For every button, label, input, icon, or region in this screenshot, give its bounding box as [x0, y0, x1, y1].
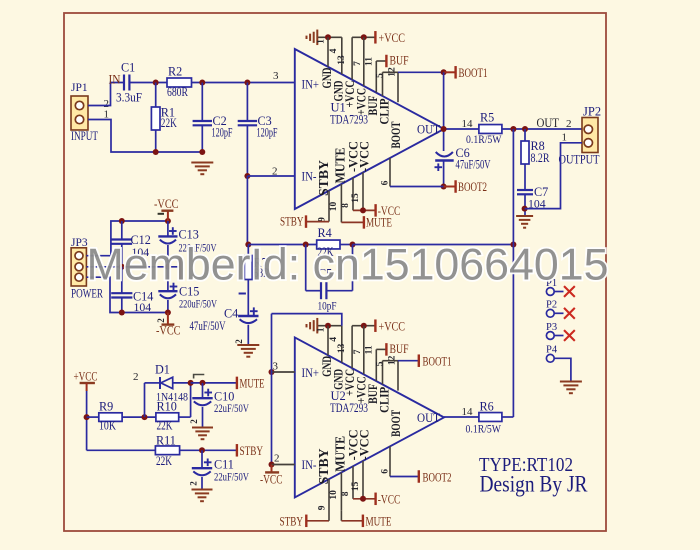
MUTE wire U1: [341, 221, 364, 223]
capacitor C15: [167, 267, 169, 291]
node D1 anode column: [142, 414, 148, 420]
ground C11: [192, 489, 213, 491]
gnd wire U1: [317, 36, 342, 38]
BOOT2 bar U2: [418, 470, 420, 483]
svg-text:OUT: OUT: [537, 116, 560, 130]
wire JP3 pin2 mid rail: [86, 266, 180, 268]
svg-text:R9: R9: [99, 400, 113, 414]
pin 1 U2: [327, 326, 329, 356]
-VCC symbol U2 IN-: [271, 465, 273, 473]
capacitor C4: [238, 315, 258, 317]
connector JP3: [71, 248, 86, 286]
wire IN+ U2: [272, 371, 295, 373]
U2 IN+ node: [269, 369, 275, 375]
BOOT1 bar U2: [418, 354, 420, 367]
svg-text:P4: P4: [546, 345, 558, 356]
resistor R1: [155, 83, 157, 108]
gnd wire U2: [317, 325, 342, 327]
svg-text:5: 5: [376, 73, 386, 78]
BOOT wire U1: [383, 71, 399, 73]
svg-text:R5: R5: [480, 111, 494, 125]
+VCC bar U1: [374, 31, 376, 44]
svg-text:9: 9: [317, 505, 327, 510]
BOOT1 wire U2: [398, 360, 419, 362]
svg-text:13: 13: [337, 55, 347, 65]
bracket mark D1: [194, 375, 205, 379]
ground output: [516, 215, 533, 217]
MUTE bar U2: [362, 515, 364, 528]
U2 IN- node: [269, 462, 275, 468]
node C12 top: [119, 218, 125, 224]
wire IN- U1: [247, 175, 294, 177]
capacitor C13: [167, 221, 169, 236]
test point P3: [546, 332, 554, 340]
svg-text:2: 2: [156, 318, 166, 323]
pin 7 U2: [363, 326, 365, 375]
svg-text:BUF: BUF: [390, 54, 409, 68]
ground C10: [192, 427, 213, 429]
STBY bar U2: [305, 515, 307, 528]
op-amp U2 TDA7293 triangle: [295, 337, 444, 497]
node gnd pins U1: [325, 34, 331, 40]
svg-text:220uF/50V: 220uF/50V: [179, 297, 217, 311]
capacitor C5: [305, 245, 307, 291]
resistor R11: [155, 446, 179, 455]
no-connect X P1: [564, 286, 575, 297]
svg-text:-VCC: -VCC: [260, 473, 283, 487]
svg-text:C13: C13: [179, 228, 199, 242]
ground C4: [237, 344, 259, 346]
svg-text:104: 104: [134, 300, 152, 314]
node feedback tee: [510, 242, 516, 248]
BOOT1 wire U1: [398, 71, 444, 73]
resistor R2: [167, 78, 192, 87]
wire R11 to STBY: [180, 449, 237, 451]
wire C3 to feedback node: [246, 176, 248, 245]
pin 6 U1: [389, 158, 391, 187]
svg-text:-VCC: -VCC: [156, 324, 181, 338]
wire R5 to JP2: [502, 128, 582, 130]
node gnd pins U2: [325, 323, 331, 329]
resistor R9: [99, 413, 122, 422]
wire JP1 pin1 to ground rail: [88, 120, 202, 153]
svg-text:22uF/50V: 22uF/50V: [214, 401, 249, 415]
svg-text:2: 2: [234, 339, 244, 344]
ground symbol U2 top: [316, 318, 318, 334]
wire R4 right: [340, 244, 353, 246]
svg-text:R4: R4: [318, 226, 332, 240]
node C2 bottom: [199, 149, 205, 155]
resistor R8: [524, 129, 526, 141]
MUTE wire U2: [340, 511, 342, 521]
wire JP3 pin3: [86, 277, 167, 312]
+VCC wire U2: [352, 325, 375, 327]
feedback vertical wire: [512, 129, 514, 417]
STBY bar U1: [305, 215, 307, 228]
resistor R10: [156, 413, 179, 422]
capacitor C7: [517, 189, 533, 191]
wire to MUTE: [191, 382, 237, 384]
svg-text:+VCC: +VCC: [379, 31, 406, 45]
svg-text:IN-: IN-: [302, 170, 317, 184]
no-connect X P3: [564, 330, 575, 341]
svg-text:2: 2: [188, 481, 198, 486]
connector JP1: [71, 96, 88, 130]
node C3 top: [244, 80, 250, 86]
svg-text:STBY: STBY: [240, 444, 264, 458]
pin 1 U1: [327, 37, 329, 67]
wire OUT U1 to R5: [444, 128, 479, 130]
svg-text:22K: 22K: [156, 454, 172, 468]
node C13 top: [165, 218, 171, 224]
node C7 bottom: [522, 206, 528, 212]
node C15 bottom: [165, 310, 171, 316]
pin 10 U1: [340, 184, 342, 222]
svg-text:MemberId: cn1510664015: MemberId: cn1510664015: [87, 241, 609, 290]
svg-text:BOOT1: BOOT1: [459, 66, 488, 80]
ground P4: [560, 381, 582, 383]
node R8 top: [522, 126, 528, 132]
resistor R4: [317, 240, 340, 249]
svg-text:1: 1: [317, 327, 327, 332]
node C2 top: [199, 80, 205, 86]
-VCC wire U1 bottom: [353, 209, 376, 211]
svg-text:6: 6: [380, 469, 390, 474]
wire D1 anode vertical: [144, 383, 146, 417]
node pin7 U1: [361, 34, 367, 40]
node BOOT2 U1: [441, 184, 447, 190]
resistor R5: [479, 125, 502, 134]
pin 4 U2: [341, 326, 343, 363]
svg-text:22K: 22K: [157, 419, 173, 433]
svg-text:-VCC: -VCC: [356, 141, 371, 172]
svg-text:3.3uF: 3.3uF: [116, 91, 142, 105]
svg-text:STBY: STBY: [316, 448, 331, 484]
svg-text:R10: R10: [157, 400, 177, 414]
BUF bar U1: [385, 55, 387, 68]
capacitor C10: [202, 383, 204, 398]
diode D1 1N4148: [159, 377, 161, 389]
wire P4 to ground: [554, 358, 571, 381]
capacitor C3: [246, 83, 248, 122]
svg-text:8: 8: [341, 491, 351, 496]
svg-text:BUF: BUF: [390, 342, 409, 356]
wire to R11: [87, 449, 156, 451]
BUF wire U2: [376, 348, 386, 350]
wire IN- U2: [272, 464, 295, 466]
mid rail bar: [179, 258, 181, 280]
svg-text:STBY: STBY: [316, 160, 331, 196]
pin 12 U2: [397, 361, 399, 391]
svg-text:C4: C4: [224, 307, 238, 321]
svg-text:22K: 22K: [161, 116, 177, 130]
node R1 bottom: [153, 149, 159, 155]
pin 9 extension U2: [328, 510, 330, 521]
svg-text:D1: D1: [155, 363, 170, 377]
capacitor C14: [121, 267, 123, 293]
pin 12 U1: [397, 72, 399, 102]
STBY bar control: [236, 444, 238, 457]
svg-text:2: 2: [133, 371, 139, 383]
resistor R7: [247, 245, 249, 256]
svg-text:2: 2: [274, 453, 280, 465]
svg-text:CLIP: CLIP: [378, 98, 392, 124]
pin 9 U1: [328, 191, 330, 222]
svg-text:0.1R/5W: 0.1R/5W: [466, 132, 502, 146]
svg-text:BOOT2: BOOT2: [423, 471, 452, 485]
+VCC bar U2: [374, 319, 376, 332]
wire R9 to R10: [122, 416, 156, 418]
svg-text:14: 14: [462, 118, 474, 130]
U2 input reference vertical: [271, 314, 273, 465]
node C12 bottom: [119, 264, 125, 270]
-VCC wire U2 bottom: [353, 498, 376, 500]
wire feedback horizontal: [248, 244, 316, 246]
svg-text:+VCC: +VCC: [379, 319, 406, 333]
svg-text:15: 15: [351, 481, 361, 491]
connector JP2: [582, 118, 598, 153]
svg-text:-VCC: -VCC: [356, 429, 371, 460]
svg-text:C1: C1: [121, 61, 135, 75]
svg-text:1: 1: [317, 39, 327, 44]
svg-text:11: 11: [364, 345, 374, 354]
svg-text:1: 1: [562, 132, 568, 144]
node C5 right: [350, 242, 356, 248]
wire JP3 pin1: [86, 221, 167, 256]
wire JP2 pin1: [525, 143, 582, 209]
pin 8 U2: [352, 466, 354, 499]
svg-text:10: 10: [329, 202, 339, 212]
wire C1 to R2: [129, 82, 167, 84]
svg-text:3: 3: [273, 70, 279, 82]
svg-text:680R: 680R: [167, 85, 189, 99]
svg-text:22uF/50V: 22uF/50V: [214, 470, 249, 484]
-VCC bar U2 bottom: [374, 493, 376, 506]
svg-text:CLIP: CLIP: [378, 387, 392, 413]
BOOT wire U2: [383, 360, 399, 362]
svg-text:MUTE: MUTE: [366, 515, 392, 529]
svg-text:2: 2: [272, 166, 278, 178]
wire R10 right up: [179, 416, 191, 418]
svg-text:JP1: JP1: [71, 82, 88, 94]
capacitor C11: [201, 450, 203, 468]
test point P2: [546, 309, 554, 317]
BOOT2 bar U1: [454, 180, 456, 193]
svg-text:BOOT: BOOT: [388, 121, 403, 148]
svg-text:BOOT2: BOOT2: [458, 180, 487, 194]
svg-text:15: 15: [351, 193, 361, 203]
no-connect X P2: [564, 308, 575, 319]
node C13 bottom: [165, 264, 171, 270]
svg-text:-VCC: -VCC: [154, 197, 179, 211]
pin 9 U2: [328, 479, 330, 510]
svg-text:R11: R11: [156, 434, 176, 448]
pin 5 U1: [382, 72, 384, 96]
+VCC bar control: [80, 382, 95, 384]
wire +VCC down: [86, 391, 88, 450]
svg-text:47uF/50V: 47uF/50V: [456, 158, 491, 172]
svg-text:5: 5: [376, 361, 386, 366]
node C5 left: [303, 242, 309, 248]
node R1 top: [153, 80, 159, 86]
svg-text:STBY: STBY: [280, 215, 304, 229]
svg-text:13: 13: [337, 343, 347, 353]
pin 7 U1: [363, 37, 365, 86]
capacitor C6: [436, 152, 453, 157]
minus mark C4: [239, 293, 246, 295]
op-amp U1 TDA7293 triangle: [295, 49, 444, 209]
capacitor C1: [123, 75, 125, 91]
svg-text:INPUT: INPUT: [71, 129, 98, 143]
svg-text:IN-: IN-: [302, 458, 317, 472]
svg-text:BOOT1: BOOT1: [423, 355, 452, 369]
svg-text:0.1R/5W: 0.1R/5W: [466, 422, 502, 436]
pin 15 U1: [362, 172, 364, 210]
svg-text:OUT: OUT: [417, 411, 440, 425]
capacitor C2: [201, 83, 203, 122]
svg-text:8.2R: 8.2R: [531, 151, 551, 165]
pin 13 U1: [351, 37, 353, 79]
wire OUT U2 to R6: [444, 416, 479, 418]
node C10 top: [200, 380, 206, 386]
node BOOT1 U1: [441, 69, 447, 75]
svg-text:OUTPUT: OUTPUT: [559, 153, 600, 167]
svg-text:P2: P2: [546, 300, 557, 311]
pin 10 U2: [340, 472, 342, 510]
svg-text:10: 10: [329, 490, 339, 500]
svg-text:8: 8: [341, 203, 351, 208]
BUF wire U1: [376, 60, 386, 62]
svg-text:11: 11: [364, 57, 374, 66]
svg-text:4: 4: [329, 337, 339, 342]
svg-text:IN+: IN+: [302, 78, 320, 92]
svg-text:MUTE: MUTE: [366, 216, 392, 230]
wire to D1: [145, 382, 161, 384]
node D1 cathode: [188, 380, 194, 386]
node C14 bottom: [119, 310, 125, 316]
pin 13 U2: [351, 326, 353, 368]
svg-text:P3: P3: [546, 322, 557, 333]
resistor R6: [479, 413, 502, 422]
svg-text:IN: IN: [109, 73, 121, 87]
svg-text:7: 7: [353, 349, 363, 354]
svg-text:6: 6: [380, 180, 390, 185]
bootstrap vertical wire U1: [443, 72, 445, 151]
pin 4 U1: [341, 37, 343, 74]
svg-text:-VCC: -VCC: [378, 492, 401, 506]
test point P1: [546, 288, 554, 296]
node R9 left: [84, 414, 90, 420]
svg-text:MUTE: MUTE: [240, 377, 265, 391]
svg-text:10pF: 10pF: [318, 299, 337, 313]
svg-text:10K: 10K: [99, 419, 116, 433]
node C11 top: [199, 447, 205, 453]
svg-text:R2: R2: [168, 65, 182, 79]
svg-text:JP2: JP2: [583, 105, 601, 119]
wire pin6 to BOOT2 U1: [390, 186, 444, 188]
BOOT1 bar U1: [454, 66, 456, 79]
MUTE bar control: [236, 377, 238, 390]
svg-text:4: 4: [329, 48, 339, 53]
svg-text:3: 3: [273, 361, 279, 373]
svg-text:2: 2: [189, 419, 199, 424]
+VCC wire U1: [352, 36, 375, 38]
node pin7 U2: [361, 323, 367, 329]
svg-text:47uF/50V: 47uF/50V: [190, 319, 226, 333]
svg-text:14: 14: [462, 406, 474, 418]
svg-text:BOOT: BOOT: [388, 410, 403, 437]
MUTE bar U1: [363, 216, 365, 229]
-VCC symbol power top: [167, 211, 169, 221]
pin 6 U2: [389, 446, 391, 475]
pin 5 U2: [382, 361, 384, 385]
svg-text:7: 7: [353, 61, 363, 66]
wire to U2 gnd: [272, 314, 342, 326]
ground symbol U1 top: [316, 30, 318, 46]
wire feedback to output column: [353, 244, 514, 246]
minus power top: [158, 213, 164, 215]
node feedback tap U1: [510, 126, 516, 132]
svg-text:120pF: 120pF: [257, 126, 278, 140]
STBY wire U1: [306, 221, 329, 223]
ground input: [191, 162, 213, 164]
wire R2 to IN+ U1: [192, 82, 295, 84]
svg-text:2: 2: [566, 118, 572, 130]
BUF bar U2: [385, 343, 387, 356]
node IN- U1: [244, 173, 250, 179]
pin 11 U2: [375, 349, 377, 381]
pin 11 U1: [375, 61, 377, 93]
svg-text:IN+: IN+: [302, 366, 320, 380]
svg-text:12: 12: [387, 355, 397, 365]
svg-text:+VCC: +VCC: [74, 370, 98, 384]
svg-text:STBY: STBY: [280, 515, 304, 529]
svg-text:12: 12: [387, 67, 397, 77]
svg-text:120pF: 120pF: [212, 126, 233, 140]
STBY wire U2: [306, 520, 329, 522]
node A feedback U1: [245, 242, 251, 248]
border frame: [64, 13, 606, 531]
test point P4: [546, 354, 554, 362]
svg-text:R6: R6: [480, 400, 494, 414]
pin 15 U2: [362, 461, 364, 499]
svg-text:JP3: JP3: [71, 237, 88, 249]
wire R6 to feedback column: [502, 416, 514, 418]
-VCC symbol power bottom: [167, 313, 169, 325]
wire to R9: [87, 416, 99, 418]
pin 8 U1: [352, 178, 354, 211]
svg-text:OUT: OUT: [417, 123, 440, 137]
node OUT bootstrap U1: [441, 126, 447, 132]
wire pin6 BOOT2 U2: [389, 475, 391, 477]
svg-text:Design By JR: Design By JR: [480, 472, 588, 498]
capacitor C12: [121, 221, 123, 240]
-VCC bar U1 bottom: [374, 204, 376, 217]
wire JP1 pin2 to C1: [88, 83, 124, 106]
